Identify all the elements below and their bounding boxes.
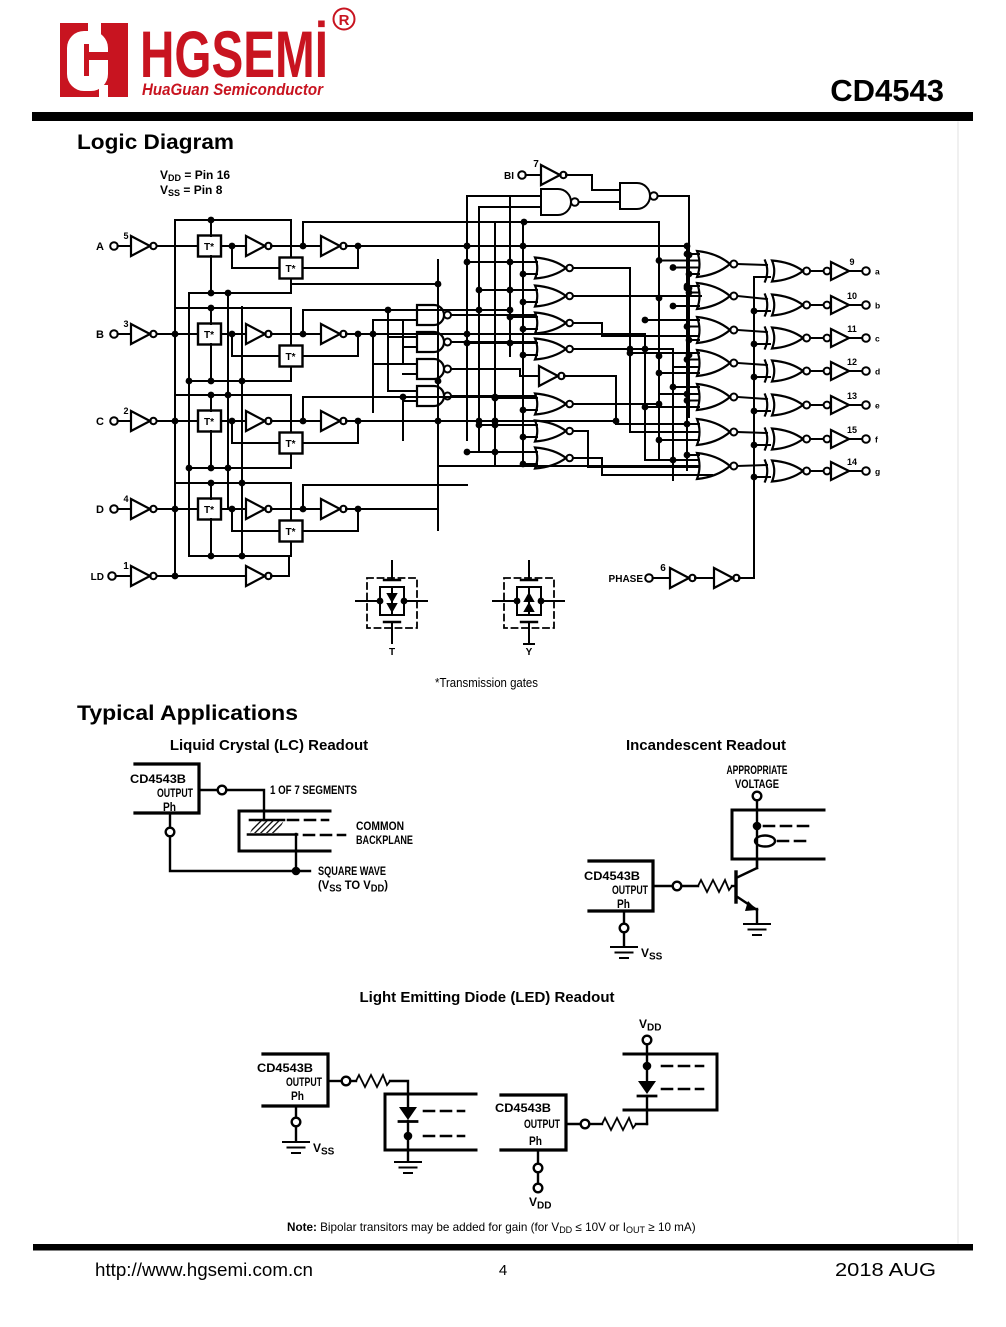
VDD VSS pin note [160,168,230,198]
wire B feedback left [232,334,279,356]
Incandescent box labels [584,871,648,911]
svg-text:Ph: Ph [291,1089,304,1103]
nand gate B2 [620,183,658,209]
wire D latch node [271,506,321,513]
svg-text:A: A [96,241,104,253]
wire nand input risers [373,310,403,440]
wire nor N5 output to G5 [573,394,699,407]
wire nand M4 output [451,395,535,397]
wire xor X5 to buffer [811,404,824,406]
output inverter O4 [824,362,849,380]
or gate G2 [697,283,737,309]
wire LC backplane down [292,834,301,875]
wire xor X2 to buffer [811,304,824,306]
svg-text:OUTPUT: OUTPUT [612,883,648,897]
LED2 dashed wires [662,1066,703,1089]
nand gate M1 [417,305,451,325]
wire nand B2 output riser [658,196,692,417]
svg-text:Liquid Crystal (LC) Readout: Liquid Crystal (LC) Readout [170,737,368,754]
ground for D1 [395,1162,421,1173]
wire B feedback right [303,331,361,356]
svg-text:OUTPUT: OUTPUT [286,1075,322,1089]
transmission gate T* box C2 feedback [280,433,303,454]
svg-text:http://www.hgsemi.com.cn: http://www.hgsemi.com.cn [95,1260,313,1280]
inverter B2 [246,324,272,344]
svg-text:6: 6 [660,563,666,574]
transmission gate T* box D2 feedback [280,521,303,542]
wire latch enable riser [291,260,441,530]
or gate G7 [697,453,737,479]
wire mid bus riser a [464,196,471,440]
svg-text:CD4543B: CD4543B [495,1103,551,1115]
svg-text:Incandescent Readout: Incandescent Readout [626,737,786,754]
wire nand M1 output [451,314,535,316]
wire nand input stubs [373,310,417,401]
wire LED2 output [566,1120,602,1129]
svg-text:VDD: VDD [529,1195,551,1212]
input B terminal pin 3 [96,319,131,341]
wire A tap to top rail [303,219,659,246]
wire G5 inputs [642,384,699,411]
wire xor X1 to buffer [811,270,824,272]
header rule bar [32,112,973,121]
wire D feedback right [303,506,361,531]
wire phase bus vertical [751,277,770,578]
diode D1 [399,1094,417,1161]
xor gate X7 [765,461,810,482]
output terminal pin 14 segment g [847,457,880,477]
wire C T1 to inverter, node [221,418,246,425]
nor gate N7 [535,448,573,469]
wire C feedback right [303,418,361,443]
inverter B3 [321,324,347,344]
svg-text:e: e [875,401,880,411]
svg-text:1 OF 7 SEGMENTS: 1 OF 7 SEGMENTS [270,783,357,797]
output terminal pin 13 segment e [847,391,880,411]
input PHASE terminal pin 6 [609,563,670,585]
inverter BI [541,165,567,185]
wire nor N7 output to G7 low [573,458,712,475]
lamp dashed wires [764,826,812,841]
svg-text:CD4543B: CD4543B [584,871,640,883]
wire C T1 gate controls [208,395,215,471]
wire B bottom rail [189,380,291,382]
label 1 of 7 segments [270,783,357,797]
xor gate X1 [765,261,810,282]
svg-text:HuaGuan Semiconductor: HuaGuan Semiconductor [142,80,324,99]
wire G3 to xor [738,330,768,332]
svg-text:g: g [875,467,880,477]
svg-text:D: D [96,504,104,516]
wire nor N3 output to G3 [573,323,699,336]
LC dashed lines [288,820,345,835]
wire D T1 to inverter, node [221,506,246,513]
xor gate X6 [765,429,810,450]
xor gate X5 [765,395,810,416]
wire B output [346,331,645,338]
wire B T1 to inverter, node [221,331,246,338]
svg-text:B: B [96,329,104,341]
wire G1 inputs [656,251,699,278]
transmission gate T* box C1 [198,411,221,432]
xor gate X3 [765,328,810,349]
wire left vertical rail 3 [225,290,232,509]
or gate G4 [697,350,737,376]
svg-text:VOLTAGE: VOLTAGE [735,777,779,791]
wire LED1 Ph [292,1106,301,1140]
appropriate voltage terminal [753,792,762,810]
wire A T1 gate controls [208,220,215,296]
svg-text:T: T [389,647,395,658]
inverter C3 [321,411,347,431]
svg-text:c: c [875,334,880,344]
svg-text:VDD = Pin 16: VDD = Pin 16 [160,168,230,183]
or gate G3 [697,317,737,343]
or gate G1 [697,251,737,277]
inverter D2 [246,499,272,519]
wire xor X4 to buffer [811,370,824,372]
wire mid bus riser b [476,207,483,452]
wire ph1 to ph2 [695,577,714,579]
wire B latch node [271,331,321,338]
svg-text:4: 4 [123,494,128,504]
svg-text:12: 12 [847,357,857,367]
wire G4 to xor [738,363,768,365]
wire D clock top rail [175,480,291,556]
svg-text:Light Emitting Diode (LED) Rea: Light Emitting Diode (LED) Readout [360,989,615,1006]
wire G1 to xor [738,264,768,265]
svg-text:7: 7 [533,159,539,170]
nand gate M2 [417,332,451,352]
wire output to resistor [653,882,681,891]
xor gate X2 [765,295,810,316]
output inverter O7 [824,462,849,480]
svg-text:f: f [875,435,878,445]
resistor R2 [356,1075,408,1094]
LC box labels [130,774,193,814]
svg-text:Ph: Ph [617,897,630,911]
inverter LD2 [246,566,272,586]
resistor R3 [602,1118,647,1130]
output terminal pin 9 segment a [849,257,880,277]
or gate G5 [697,384,737,410]
wire G2 inputs [670,283,699,310]
wire G7 inputs [684,452,699,459]
LED2 CD4543B box [501,1095,566,1150]
ground for Ph [611,947,637,958]
wire A feedback right [303,243,361,268]
lamp box [732,810,824,859]
wire D bottom rail [189,555,291,557]
inverter PH2 [714,568,740,588]
wire LD to buffer, nodes [157,573,246,580]
svg-text:BACKPLANE: BACKPLANE [356,833,413,847]
wire LED1 output [328,1077,356,1086]
wire left vertical rail 2 [186,293,193,556]
svg-text:13: 13 [847,391,857,401]
svg-text:3: 3 [123,319,128,329]
output terminal pin 11 segment c [847,324,880,344]
inverter D3 [321,499,347,519]
wire nor N6 output to G7 [573,431,699,467]
svg-text:BI: BI [504,171,514,182]
inverter A3 [321,236,347,256]
wire B clock top rail [175,305,291,381]
label square wave [318,864,388,895]
wire nor N1 output to G6 [573,268,699,432]
wire LC output [199,786,264,820]
nor gate N6 [535,421,573,442]
wire B inv to T1 [157,333,198,335]
wire D tap rail [303,485,467,509]
wire buffer N8 output to G6 [564,376,699,424]
svg-text:VSS: VSS [641,946,663,963]
buffer gate N8 [539,366,565,386]
wire xor X6 to buffer [811,438,824,440]
LED1 box labels [257,1063,322,1103]
wire LED2 Ph to VDD [534,1150,543,1192]
wire BI inverter to nand [566,175,620,190]
wire A bottom rail [189,292,291,294]
ground for LED1 Ph [283,1142,309,1153]
wire G2 to xor [738,296,768,299]
wire D output [346,466,699,509]
input A terminal pin 5 [96,231,131,253]
inverter D1 [131,499,157,519]
LED1 dashed wires [424,1111,464,1136]
wire D T1 gate controls [208,483,215,559]
svg-text:10: 10 [847,291,857,301]
HGSEMI logo icon [60,23,128,97]
svg-text:2018 AUG: 2018 AUG [835,1260,936,1280]
transmission gate T* box B1 [198,324,221,345]
output inverter O5 [824,396,849,414]
nand gate B1 [541,189,579,215]
wire B T2 gate controls [290,308,292,381]
footer rule bar [33,1244,973,1251]
wire nand B1 inputs [467,196,541,207]
wire D T2 gate controls [290,483,292,556]
wire nand M3 output [451,369,539,376]
wire left vertical rail 4 [239,307,246,559]
inverter A1 [131,236,157,256]
lamp node and filament [753,810,775,866]
registered trademark symbol [334,9,355,30]
wire xor X7 to buffer [811,470,824,472]
wire G4 inputs [627,350,699,377]
wire C latch node [271,418,321,425]
transmission gate T* box B2 feedback [280,346,303,367]
nand gate M3 [417,359,451,379]
LC cell outline [239,811,330,851]
inverter PH1 [670,568,696,588]
svg-text:COMMON: COMMON [356,819,404,833]
wire C inv to T1 [157,420,198,422]
output terminal pin 10 segment b [847,291,880,311]
LC backplane electrode [248,833,297,836]
wire G3 inputs [642,317,699,344]
transmission gate T* box A2 feedback [280,258,303,279]
output terminal pin 15 segment f [847,425,878,445]
wire A clock top rail [175,217,291,293]
svg-text:15: 15 [847,425,857,435]
svg-text:9: 9 [849,257,854,267]
wire D inv to T1 [157,508,198,510]
label appropriate voltage [727,763,788,791]
svg-text:Logic Diagram: Logic Diagram [77,131,234,154]
svg-text:1: 1 [123,561,129,572]
nor gate N5 [535,394,573,415]
wire C tap rail [303,394,495,421]
svg-text:14: 14 [847,457,857,467]
wire A T2 gate controls [290,220,292,293]
svg-text:b: b [875,301,880,311]
svg-text:Y: Y [526,647,533,658]
wire C bottom rail [189,467,291,469]
svg-text:VSS = Pin 8: VSS = Pin 8 [160,183,223,198]
input C terminal pin 2 [96,406,131,428]
wire LD collector [271,556,289,576]
nand gate M4 [417,386,451,406]
svg-text:OUTPUT: OUTPUT [157,786,193,800]
svg-text:Typical Applications: Typical Applications [77,702,298,725]
diode D2 [638,1054,656,1124]
svg-text:CD4543: CD4543 [830,73,944,108]
svg-text:CD4543B: CD4543B [257,1063,313,1075]
inverter LD1 [131,566,157,586]
wire C feedback left [232,421,279,443]
nor gate N3 [535,313,573,334]
svg-text:C: C [96,416,104,428]
wire mid bus riser c [492,222,499,464]
wire matrix riser k [656,222,663,460]
output inverter O3 [824,329,849,347]
inverter C1 [131,411,157,431]
wire A T1 to inverter, node [221,243,246,250]
input D terminal pin 4 [96,494,131,516]
wire matrix riser l [670,349,677,480]
svg-text:(VSS TO VDD): (VSS TO VDD) [318,878,388,895]
transistor Q1 [736,859,757,922]
wire A output to decode matrix [346,243,690,250]
wire matrix riser m [684,246,691,470]
wire C T2 gate controls [290,395,292,468]
inverter A2 [246,236,272,256]
svg-text:Note: Bipolar transitors may b: Note: Bipolar transitors may be added fo… [287,1221,696,1235]
input BI terminal pin 7 [504,159,541,182]
LED2 box labels [495,1103,560,1148]
Incandescent CD4543B box [589,861,653,911]
wire mid bus riser e [520,222,527,464]
LC CD4543B box [135,764,199,813]
wire C output [346,418,619,425]
transmission gate symbol Y [493,561,564,658]
scan artifact line [957,122,959,1243]
svg-text:PHASE: PHASE [609,574,644,585]
wire G7 to xor [738,465,768,466]
wire ph2 to bus [739,577,754,579]
nor gate N1 [535,258,573,279]
or gate G6 [697,419,737,445]
wire G6 to xor [738,432,768,433]
svg-text:SQUARE WAVE: SQUARE WAVE [318,864,386,878]
wire G6 inputs [656,421,699,444]
svg-text:OUTPUT: OUTPUT [524,1117,560,1131]
svg-text:APPROPRIATE: APPROPRIATE [727,763,788,777]
inverter C2 [246,411,272,431]
wire A latch node [271,243,321,250]
wire C clock top rail [175,392,291,468]
wire A inv to T1 [157,245,198,247]
xor gate X4 [765,361,810,382]
svg-text:11: 11 [847,324,857,334]
output inverter O2 [824,296,849,314]
transmission gate T* box A1 [198,236,221,257]
svg-text:CD4543B: CD4543B [130,774,186,786]
wire nor N2 output to G2 [573,295,701,297]
label common backplane [356,819,413,847]
wire B tap rail [303,307,510,334]
svg-text:2: 2 [123,406,128,416]
svg-text:*Transmission gates: *Transmission gates [435,676,538,690]
LED1 CD4543B box [263,1054,328,1106]
svg-text:VDD: VDD [639,1017,661,1034]
wire A feedback left [232,246,279,268]
wire left vertical rail 1 [172,246,179,576]
transmission gate T* box D1 [198,499,221,520]
wire D feedback left [232,509,279,531]
wire nor input stubs [464,259,537,468]
ground for Q1 [744,924,770,935]
svg-text:R: R [339,12,350,29]
output terminal pin 12 segment d [847,357,880,377]
svg-text:LD: LD [91,572,104,583]
svg-text:VSS: VSS [313,1141,335,1158]
wire mid bus riser d [507,196,514,356]
wire LC Ph to square wave [166,813,310,871]
wire nand M2 output [451,341,535,343]
wire G5 to xor [738,397,768,399]
svg-text:5: 5 [123,231,128,241]
transmission gate symbol T [356,561,427,658]
wire nor N4 branch to G7 [645,334,699,460]
wire nor N4 output to G4 [573,346,699,367]
input LD terminal pin 1 [91,561,131,583]
nor gate N2 [535,286,573,307]
output inverter O6 [824,430,849,448]
svg-text:4: 4 [499,1262,507,1279]
svg-text:d: d [875,367,880,377]
wire Ph to ground [620,911,629,945]
inverter B1 [131,324,157,344]
resistor R1 [681,880,736,892]
VDD terminal [643,1036,652,1054]
nor gate N4 [535,339,573,360]
wire xor X3 to buffer [811,337,824,339]
output inverter O1 [824,262,849,280]
wire B T1 gate controls [208,308,215,384]
svg-text:a: a [875,267,880,277]
wire nand B1 out to B2 [579,201,620,203]
LED2 box outline [624,1054,717,1110]
LED1 box outline [385,1094,476,1150]
svg-text:Ph: Ph [529,1134,542,1148]
